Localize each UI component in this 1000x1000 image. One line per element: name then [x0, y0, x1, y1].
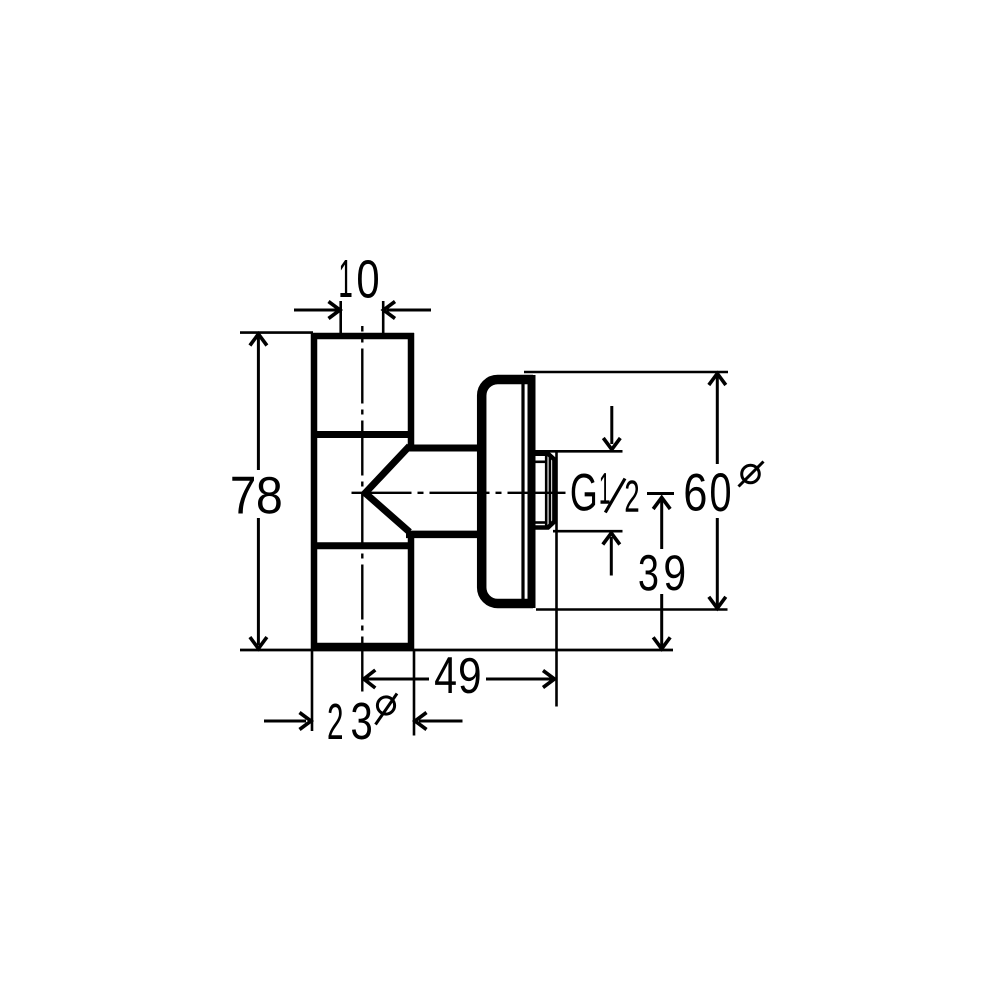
bottom reference line: [240, 649, 673, 652]
diameter symbol after 60: [739, 462, 764, 487]
dimension 78 arrow up: [250, 334, 267, 346]
label 1 of G1/2: [600, 473, 609, 504]
diameter symbol after 23: [376, 694, 398, 725]
extension line thread bottom: [553, 530, 623, 533]
extension line 49 right: [555, 452, 558, 707]
dimension 23 right arrow: [419, 720, 463, 723]
thread outline: [531, 454, 554, 528]
dimension 60 line: [716, 376, 719, 606]
label 39: [639, 555, 684, 591]
body divider lower: [311, 542, 413, 549]
label 23: [329, 702, 371, 739]
V seat: [365, 446, 409, 532]
extension line 78 top: [240, 331, 313, 334]
label 49: [435, 657, 479, 693]
dimension 49 line: [366, 678, 552, 681]
spout bottom edge: [406, 531, 481, 539]
dimension 49 arrow right: [543, 671, 555, 688]
dimension 39 arrow up: [653, 498, 670, 510]
spout top edge: [406, 445, 481, 452]
valve body outline: [311, 333, 414, 649]
thread root line bottom: [532, 521, 547, 524]
thread root line top: [532, 460, 547, 463]
dimension 78 arrow down: [250, 637, 267, 649]
dimension 49 arrow left: [364, 670, 376, 688]
fraction slash of G1/2: [605, 479, 625, 513]
label 78: [232, 477, 280, 514]
flange face line: [521, 378, 524, 606]
dimension 39 line: [660, 500, 663, 646]
extension line body right below: [413, 650, 416, 736]
label G of G1/2: [572, 474, 595, 511]
extension line body left below: [311, 650, 314, 731]
label 2 of G1/2: [626, 480, 639, 512]
centerline vertical: [361, 326, 363, 692]
dimension 60 arrow down: [709, 597, 726, 609]
label 10: [340, 260, 378, 298]
dimension 10 left arrow: [294, 309, 338, 312]
dimension 23 left arrow: [264, 720, 306, 723]
G1/2 upper arrow: [610, 406, 613, 444]
dimension 78 line: [257, 337, 260, 645]
extension line flange bottom: [536, 608, 728, 611]
extension line flange top: [524, 371, 728, 374]
thread chamfer line inner: [545, 454, 548, 527]
label 60: [686, 473, 731, 511]
body divider upper: [311, 431, 413, 438]
centerline horizontal: [352, 492, 566, 494]
dimension 10 right arrow: [387, 309, 431, 312]
extension line 10 right: [382, 301, 385, 334]
extension line thread top: [531, 450, 623, 453]
flange right edge: [528, 375, 536, 608]
dimension 60 arrow up: [709, 374, 726, 386]
extension line 10 left: [339, 301, 342, 334]
flange outline: [482, 380, 533, 604]
G1/2 lower arrow: [610, 537, 613, 576]
thread chamfer line outer: [549, 455, 552, 527]
dimension 39 top tick: [647, 492, 674, 495]
dimension 39 arrow down: [653, 637, 670, 649]
